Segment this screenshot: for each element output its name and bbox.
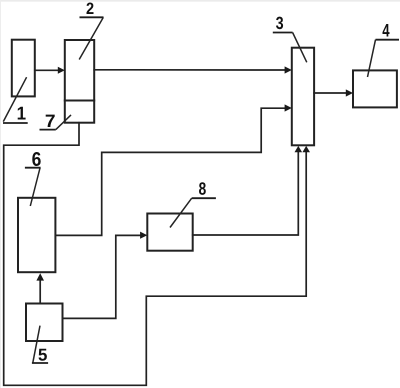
underline label 1 bbox=[3, 122, 28, 124]
underline label 3 bbox=[273, 32, 293, 34]
leader line label 7 bbox=[56, 115, 71, 130]
underline label 5 bbox=[32, 362, 48, 364]
label 1 bbox=[18, 107, 26, 120]
arrowhead into block 3 upper left bbox=[285, 66, 292, 73]
leader line label 2 bbox=[79, 17, 103, 59]
arrowhead of wire 7-3 into block 3 bottom bbox=[302, 146, 310, 152]
label 7 bbox=[46, 115, 55, 127]
wire 2 to 3 bbox=[94, 69, 285, 71]
block 7 divider (lower section of block 2) bbox=[65, 100, 94, 102]
block 4 bbox=[353, 70, 397, 107]
leader line label 4 bbox=[368, 40, 376, 77]
scan edge top bbox=[0, 0, 400, 2]
wire 3 to 4 bbox=[314, 92, 347, 94]
underline label 8 bbox=[192, 197, 216, 199]
label 6 bbox=[32, 152, 40, 166]
underline label 4 bbox=[376, 39, 400, 41]
underline label 6 bbox=[25, 167, 41, 169]
arrowhead into block 6 bbox=[36, 273, 44, 280]
block 2 bbox=[65, 40, 94, 123]
arrowhead into block 2 bbox=[58, 67, 65, 74]
arrowhead into block 8 bbox=[140, 232, 147, 239]
block 6 bbox=[18, 198, 55, 272]
wire 5 to 8 bbox=[63, 235, 141, 318]
underline label 2 bbox=[80, 16, 104, 18]
wire 7 to 3 bbox=[4, 123, 307, 386]
wire 5 to 6 bbox=[39, 280, 41, 303]
underline label 7 bbox=[40, 129, 56, 131]
wire 8 to 3 bbox=[193, 152, 299, 235]
label 5 bbox=[38, 349, 46, 361]
block 5 bbox=[26, 304, 63, 342]
leader line label 3 bbox=[293, 33, 307, 63]
arrowhead into block 4 bbox=[346, 89, 353, 96]
leader line label 6 bbox=[30, 168, 40, 206]
arrowhead of wire 8-3 into block 3 bottom bbox=[295, 146, 303, 152]
label 2 bbox=[87, 2, 94, 14]
block 3 bbox=[292, 48, 314, 146]
block 8 bbox=[147, 214, 192, 251]
label 3 bbox=[276, 17, 283, 30]
wire 6 to 3 bbox=[55, 108, 285, 235]
wire 1 to 2 bbox=[35, 69, 58, 71]
label 8 bbox=[199, 182, 206, 195]
label 4 bbox=[382, 24, 389, 37]
arrowhead into block 3 lower left bbox=[285, 104, 292, 111]
leader line label 5 bbox=[33, 326, 40, 363]
leader line label 8 bbox=[170, 198, 192, 227]
scan edge left bbox=[0, 0, 2, 388]
leader line label 1 bbox=[3, 77, 26, 121]
block 1 bbox=[12, 40, 35, 97]
